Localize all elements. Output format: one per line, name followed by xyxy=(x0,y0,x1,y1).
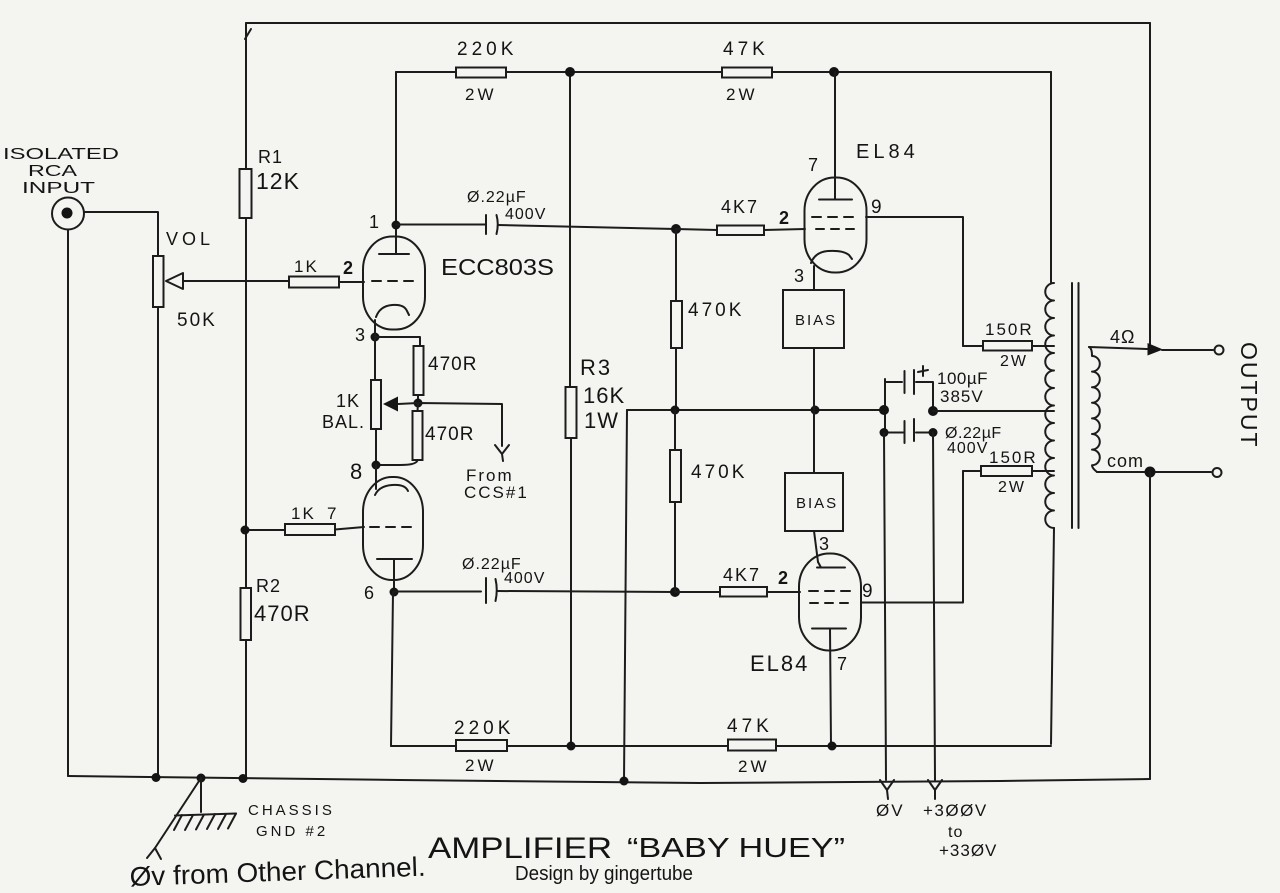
wire junction to 4K7 xyxy=(676,229,717,230)
resistor 470K (lower) xyxy=(670,450,747,502)
supply arrow 0V xyxy=(876,780,905,820)
wire BAL bottom to node 8 xyxy=(375,429,377,465)
node 4ohm junction arrow xyxy=(1148,343,1164,356)
svg-text:2W: 2W xyxy=(738,757,770,776)
node chassis gnd on rail xyxy=(197,774,206,783)
wire 4K7 to lower EL84 grid xyxy=(767,591,800,593)
RCA input connector xyxy=(52,198,84,230)
svg-text:EL84: EL84 xyxy=(856,141,919,163)
svg-text:Design by gingertube: Design by gingertube xyxy=(515,863,693,885)
svg-text:470R: 470R xyxy=(428,354,477,375)
svg-text:“BABY HUEY”: “BABY HUEY” xyxy=(627,832,845,863)
resistor 47K 2W (bottom) xyxy=(727,716,776,776)
svg-text:400V: 400V xyxy=(505,206,546,223)
wire com drop to bottom rail xyxy=(1149,472,1151,779)
arrow from CCS#1 xyxy=(464,445,529,502)
node lower grid junction xyxy=(670,587,680,597)
svg-text:385V: 385V xyxy=(940,387,984,406)
node cap left rail lower xyxy=(880,428,889,437)
svg-text:BIAS: BIAS xyxy=(796,495,838,512)
wire coupling cap to upper grid node xyxy=(498,225,676,229)
wire 470Rb bottom to node 8 xyxy=(378,460,418,465)
wire 4ohm to terminal xyxy=(1162,349,1213,351)
resistor 220K 2W (bottom) xyxy=(454,718,514,775)
wire plate lead pin1 up to 220K line xyxy=(395,72,397,254)
wire R3 chain bottom xyxy=(570,438,572,746)
node com junction xyxy=(1145,467,1156,478)
svg-text:470R: 470R xyxy=(254,601,311,626)
svg-text:1K: 1K xyxy=(294,257,319,276)
transformer T1 primary winding xyxy=(1045,283,1054,528)
wire node3 to BAL pot xyxy=(374,337,376,380)
resistor 150R 2W (upper) xyxy=(983,320,1034,370)
svg-text:EL84: EL84 xyxy=(750,651,809,676)
svg-text:150R: 150R xyxy=(989,448,1038,467)
wire bottom ground rail xyxy=(68,776,1150,783)
node pin 3 upper triode xyxy=(371,333,380,342)
node VOL bottom on rail xyxy=(152,773,161,782)
terminal com xyxy=(1213,468,1222,477)
resistor 150R 2W (lower) xyxy=(981,448,1038,496)
svg-text:7: 7 xyxy=(837,654,847,674)
wire 1K to lower grid xyxy=(335,527,364,530)
wire pin6 to coupling cap lower xyxy=(394,591,481,593)
wire pin6 drop to lower line xyxy=(391,592,393,746)
wire secondary top to 4ohm xyxy=(1089,347,1147,349)
node upper grid junction xyxy=(671,224,681,234)
transformer T1 primary bottom feed xyxy=(1051,528,1054,744)
wire lower B+ line y746 xyxy=(391,745,1051,747)
svg-text:OUTPUT: OUTPUT xyxy=(1236,342,1262,449)
node R3 bottom junction xyxy=(567,742,576,751)
wire node3 to 470Ra xyxy=(375,337,420,346)
node cap right rail lower xyxy=(929,428,938,437)
BIAS module upper xyxy=(783,290,844,348)
svg-text:2W: 2W xyxy=(726,85,758,104)
wire plate lead to pin 6 xyxy=(393,559,395,592)
svg-text:2W: 2W xyxy=(1000,353,1028,370)
svg-text:2: 2 xyxy=(779,208,789,228)
svg-text:ECC803S: ECC803S xyxy=(441,254,554,280)
capacitor C4 0.22uF 400V (lower coupling) xyxy=(462,556,545,603)
wire 1K to grid xyxy=(339,281,364,283)
svg-text:4K7: 4K7 xyxy=(721,197,759,217)
svg-text:RCA: RCA xyxy=(28,163,77,180)
node pin 6 xyxy=(390,588,399,597)
wire node8 into lower triode xyxy=(375,465,377,489)
wire corner overshoot tick xyxy=(245,29,251,39)
capacitor C3 0.22uF 400V xyxy=(884,419,1002,457)
svg-text:AMPLIFIER: AMPLIFIER xyxy=(428,832,612,865)
resistor 1K (lower grid stopper) xyxy=(285,504,335,535)
svg-text:3: 3 xyxy=(355,325,365,345)
svg-text:to: to xyxy=(948,824,963,841)
svg-text:9: 9 xyxy=(871,197,882,218)
svg-text:3: 3 xyxy=(794,266,804,286)
wire VOL bottom drop xyxy=(157,307,159,778)
node 470K junction on 0V line xyxy=(671,406,680,415)
svg-text:1W: 1W xyxy=(584,408,619,433)
potentiometer VOL 50K xyxy=(153,229,217,331)
wire junction to 4K7 lower xyxy=(675,591,720,593)
svg-text:4Ω: 4Ω xyxy=(1110,327,1135,347)
svg-text:BAL.: BAL. xyxy=(322,412,365,432)
wire B+ center tap line xyxy=(933,410,1054,412)
wire left feedback vertical upper xyxy=(245,23,247,169)
wire cap to lower grid node xyxy=(497,591,675,592)
potentiometer BAL 1K xyxy=(322,380,398,432)
svg-text:6: 6 xyxy=(364,583,374,603)
svg-text:4K7: 4K7 xyxy=(723,565,761,585)
node pin 1 dot xyxy=(392,221,401,230)
wire pin9 lower to 150R xyxy=(861,471,963,603)
svg-text:VOL: VOL xyxy=(166,229,214,249)
wire wiper to 1K xyxy=(183,280,289,282)
svg-text:CCS#1: CCS#1 xyxy=(464,483,529,502)
resistor 1K (upper grid stopper) xyxy=(289,257,339,288)
resistor 470R (lower cathode) xyxy=(413,411,475,460)
svg-text:R3: R3 xyxy=(580,355,612,380)
svg-text:12K: 12K xyxy=(256,168,300,194)
wire EL84 pin3 to BIAS xyxy=(813,266,815,290)
node 0V line on rail xyxy=(620,777,629,786)
wire cathode to node 3 xyxy=(374,320,376,337)
svg-text:Ø.22µF: Ø.22µF xyxy=(467,189,527,206)
svg-text:1: 1 xyxy=(369,212,379,232)
node R2 bottom on rail xyxy=(239,774,248,783)
tube V1b ECC803S lower triode xyxy=(363,477,423,580)
svg-text:470R: 470R xyxy=(425,424,474,445)
svg-text:220K: 220K xyxy=(457,39,517,60)
chassis ground symbol xyxy=(174,778,335,840)
svg-text:47K: 47K xyxy=(723,39,769,60)
svg-text:150R: 150R xyxy=(985,320,1034,339)
supply arrow +300V xyxy=(923,780,997,860)
wire 470K lower bottom lead xyxy=(674,502,676,592)
svg-text:INPUT: INPUT xyxy=(22,180,95,197)
svg-text:220K: 220K xyxy=(454,718,514,739)
terminal fork other channel xyxy=(147,848,161,859)
svg-text:BIAS: BIAS xyxy=(795,312,837,329)
node R3 top junction xyxy=(565,67,575,77)
wire pin1 to coupling cap xyxy=(396,224,485,226)
wire 1K lower from left rail xyxy=(245,529,285,531)
wire pin9 upper 150R feed xyxy=(963,345,983,347)
svg-text:1K: 1K xyxy=(291,504,316,523)
wire 470Rb top lead xyxy=(417,403,420,411)
svg-text:2: 2 xyxy=(778,568,788,588)
wire 0V node line vertical drop xyxy=(624,410,627,781)
wire left feedback vertical lower xyxy=(245,640,247,778)
svg-text:470K: 470K xyxy=(691,462,747,483)
label isolated RCA input xyxy=(3,146,119,197)
svg-text:8: 8 xyxy=(350,459,362,484)
wire RCA ground drop xyxy=(67,230,69,777)
svg-text:100µF: 100µF xyxy=(937,369,988,388)
wire pin9 upper to 150R xyxy=(866,217,963,346)
svg-text:1K: 1K xyxy=(336,391,360,411)
node EL84 plate junction top xyxy=(829,67,839,77)
svg-text:50K: 50K xyxy=(177,310,217,331)
svg-text:2W: 2W xyxy=(998,479,1026,496)
svg-text:2W: 2W xyxy=(465,85,497,104)
capacitor C1 0.22uF 400V xyxy=(467,189,546,234)
svg-text:16K: 16K xyxy=(583,383,625,408)
wire 0V supply drop xyxy=(884,433,886,780)
resistor 4K7 (upper) xyxy=(717,197,764,235)
resistor R1 12K xyxy=(240,147,300,218)
resistor 220K 2W (top) xyxy=(456,39,517,104)
wire 470K upper bottom lead xyxy=(675,348,677,410)
svg-text:470K: 470K xyxy=(688,300,744,321)
wire 0V node line horizontal xyxy=(627,409,884,411)
svg-text:7: 7 xyxy=(808,155,818,175)
wire secondary bottom to com xyxy=(1097,471,1211,473)
tube V3 EL84 lower xyxy=(799,554,861,651)
svg-text:400V: 400V xyxy=(504,570,545,587)
wire to other channel xyxy=(155,778,201,848)
resistor 470R (upper cathode) xyxy=(414,346,478,395)
wire 470K upper top lead xyxy=(675,229,677,301)
transformer T1 primary top feed xyxy=(1050,72,1052,283)
node 8 xyxy=(372,461,381,470)
svg-text:7: 7 xyxy=(327,504,336,523)
tube V2 EL84 upper xyxy=(805,178,867,273)
transformer T1 secondary winding xyxy=(1089,347,1100,472)
svg-text:3: 3 xyxy=(819,534,829,554)
wire 150R lower to transformer xyxy=(1032,470,1054,472)
node cap right rail on B+ line xyxy=(928,406,938,416)
wire 470K lower top lead xyxy=(674,410,676,450)
node BIAS junction on 0V line xyxy=(811,406,820,415)
svg-text:ØV: ØV xyxy=(876,801,905,820)
svg-text:R2: R2 xyxy=(256,576,281,596)
transformer T1 core xyxy=(1072,283,1079,528)
svg-text:CHASSIS: CHASSIS xyxy=(248,802,335,819)
resistor R3 16K 1W xyxy=(566,355,626,438)
wire top feedback rail xyxy=(246,22,1150,24)
svg-text:GND #2: GND #2 xyxy=(256,823,328,840)
node wiper junction xyxy=(414,399,423,408)
wire 150R upper to transformer xyxy=(1032,345,1054,347)
wire 4K7 to EL84 grid xyxy=(764,229,805,230)
node 1K lower junction xyxy=(241,526,250,535)
svg-text:47K: 47K xyxy=(727,716,773,737)
wire right vertical from top rail xyxy=(1149,23,1151,344)
resistor 47K 2W (top) xyxy=(722,39,772,104)
wire BIAS lower to EL84 top xyxy=(814,531,818,562)
wire left feedback vertical middle xyxy=(245,218,247,588)
wire wiper to CCS xyxy=(398,403,502,446)
terminal 4ohm xyxy=(1215,346,1224,355)
node cap left rail on 0V line xyxy=(879,405,889,415)
svg-text:9: 9 xyxy=(862,581,873,602)
node EL84 lower plate junction xyxy=(828,742,837,751)
resistor R2 470R xyxy=(241,576,311,640)
wire EL84 plate lead pin7 xyxy=(834,72,836,199)
svg-text:R1: R1 xyxy=(258,147,283,167)
svg-text:2W: 2W xyxy=(465,756,497,775)
wire R3 chain top xyxy=(569,72,571,387)
wire EL84 lower cathode pin7 down xyxy=(830,629,831,747)
title amplifier baby huey xyxy=(428,832,845,865)
svg-text:com: com xyxy=(1107,451,1144,471)
wire RCA to VOL xyxy=(84,212,158,256)
svg-text:Øv from Other Channel.: Øv from Other Channel. xyxy=(129,852,426,892)
svg-text:2: 2 xyxy=(343,258,353,278)
svg-text:ISOLATED: ISOLATED xyxy=(3,146,119,163)
wire +300V supply drop xyxy=(933,433,935,780)
wire upper B+ line y72 xyxy=(396,71,1051,73)
svg-text:+33ØV: +33ØV xyxy=(939,841,997,860)
wire BIAS upper to 0V line and lower BIAS xyxy=(813,348,815,473)
resistor 4K7 (lower) xyxy=(720,565,767,597)
capacitor C2 100uF 385V xyxy=(885,366,988,433)
resistor 470K (upper) xyxy=(671,300,744,348)
svg-text:+3ØØV: +3ØØV xyxy=(923,801,988,820)
wire pin9 lower 150R feed xyxy=(963,470,981,472)
BIAS module lower xyxy=(785,473,843,531)
tube V1a ECC803S upper triode xyxy=(363,237,425,330)
wire 470Ra to wiper node xyxy=(417,395,419,403)
svg-text:400V: 400V xyxy=(947,440,988,457)
